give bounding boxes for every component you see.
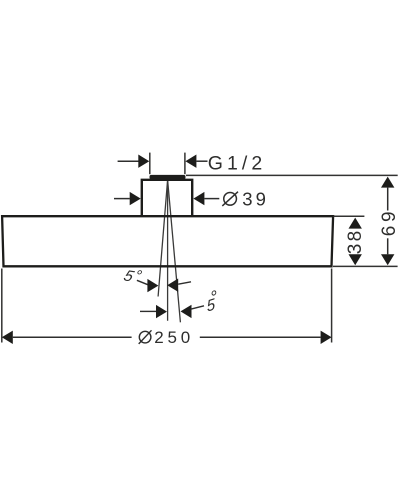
wire extension line bottom shared 38 69 bbox=[333, 265, 398, 267]
svg-text:69: 69 bbox=[379, 208, 400, 236]
plate shower head outline bbox=[2, 216, 333, 266]
arrow 5-degree upper right bbox=[167, 279, 178, 292]
wire extension line Ø250 right bbox=[331, 269, 333, 343]
wire center spray line bbox=[167, 180, 169, 321]
wire 5-degree lower left line bbox=[140, 310, 156, 312]
wire leader 5-degree upper bbox=[137, 280, 148, 284]
connector body rectangle bbox=[142, 180, 192, 216]
wire extension line 38 top bbox=[333, 215, 364, 217]
arrow G1/2 left bbox=[138, 155, 149, 168]
wire extension line G1/2 left bbox=[149, 153, 151, 175]
arrow 5-degree lower left bbox=[156, 305, 167, 318]
wire extension line Ø250 left bbox=[1, 269, 3, 343]
wire extension line 69 top bbox=[186, 174, 398, 176]
wire G1/2 dimension line left bbox=[118, 160, 139, 162]
wire Ø250 dimension line left bbox=[13, 336, 132, 338]
arrow 5-degree upper left bbox=[147, 279, 158, 292]
arrow 5-degree lower right bbox=[181, 305, 192, 318]
arrow G1/2 right bbox=[185, 155, 196, 168]
arrow 38 top bbox=[349, 218, 362, 229]
arrow 69 bottom bbox=[381, 254, 394, 265]
connector cap G1/2 thread bbox=[150, 175, 186, 179]
arrow Ø39 right bbox=[193, 192, 204, 205]
svg-text:39: 39 bbox=[242, 189, 269, 210]
wire right 5-degree spray line bbox=[168, 180, 181, 322]
wire leader 5-degree lower bbox=[191, 306, 204, 309]
svg-text:G1/2: G1/2 bbox=[208, 152, 267, 174]
wire 69 dimension line upper bbox=[387, 188, 389, 211]
wire Ø250 dimension line right bbox=[200, 336, 321, 338]
label Ø250 diameter symbol bbox=[139, 331, 151, 343]
wire 69 dimension line lower bbox=[387, 238, 389, 254]
wire leader 5-degree upper right tail bbox=[178, 282, 191, 284]
svg-text:250: 250 bbox=[154, 328, 194, 347]
arrow Ø250 left bbox=[2, 331, 13, 344]
wire G1/2 dimension line right bbox=[196, 160, 207, 162]
wire extension line G1/2 right bbox=[184, 153, 186, 175]
arrow 38 bottom bbox=[349, 254, 362, 265]
svg-text:38: 38 bbox=[345, 228, 366, 254]
arrow Ø39 left bbox=[130, 192, 141, 205]
wire Ø39 dimension line left bbox=[114, 198, 130, 200]
label Ø39 diameter symbol bbox=[224, 192, 237, 205]
arrow Ø250 right bbox=[321, 331, 332, 344]
arrow 69 top bbox=[381, 177, 394, 188]
wire left 5-degree spray line bbox=[158, 180, 168, 297]
wire Ø39 dimension line right bbox=[204, 198, 219, 200]
